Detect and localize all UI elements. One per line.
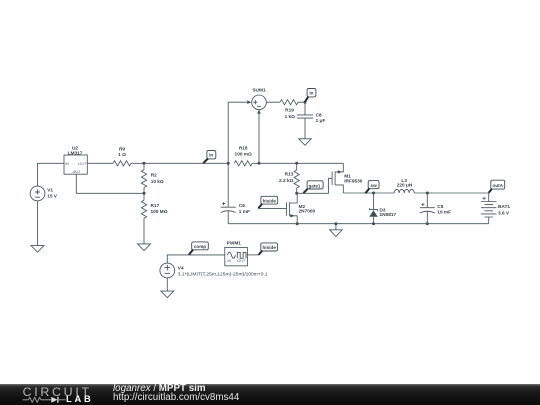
node R19/C8/In flag xyxy=(304,101,307,104)
ground under V1 xyxy=(31,246,44,253)
svg-text:2.2 kΩ: 2.2 kΩ xyxy=(279,178,294,184)
wire PWM1 out xyxy=(247,254,258,256)
PWM1 box xyxy=(225,247,248,265)
battery BAT1 xyxy=(481,197,497,224)
node ground rail/M2 source xyxy=(296,222,299,225)
svg-text:hiside: hiside xyxy=(263,245,277,250)
pin labels U2 xyxy=(65,161,87,174)
svg-text:outA: outA xyxy=(493,183,504,188)
node main/C6/SUM left xyxy=(227,162,230,165)
svg-text:1 mF: 1 mF xyxy=(239,209,250,215)
resistor R16 xyxy=(234,161,252,166)
wire R16 right xyxy=(252,162,259,164)
svg-text:100 mΩ: 100 mΩ xyxy=(235,151,252,157)
svg-text:PWM1: PWM1 xyxy=(227,240,242,246)
ground symbol on rail xyxy=(330,222,343,236)
wire switch rail M1 to L3 xyxy=(343,192,394,194)
flag In (filtered node) xyxy=(305,89,316,102)
node sw/D3 xyxy=(372,192,375,195)
transistor M2 2N7000 xyxy=(258,193,297,223)
svg-text:R16: R16 xyxy=(239,146,248,152)
svg-text:100 MΩ: 100 MΩ xyxy=(151,209,168,215)
capacitor C6 xyxy=(221,163,236,223)
svg-text:gate1: gate1 xyxy=(308,183,320,188)
svg-text:1 Ω: 1 Ω xyxy=(118,152,126,158)
node R13/M2 drain/gate wire xyxy=(295,192,298,195)
svg-text:OUT: OUT xyxy=(237,258,246,263)
svg-text:C8: C8 xyxy=(316,112,322,118)
svg-text:10 mF: 10 mF xyxy=(437,209,451,215)
flag comp xyxy=(189,242,208,255)
svg-text:1 kΩ: 1 kΩ xyxy=(285,114,296,120)
wire V4 to PWM1 xyxy=(167,255,225,263)
svg-text:OUT: OUT xyxy=(78,161,87,166)
resistor R2 xyxy=(141,163,146,193)
CircuitLab logo xyxy=(23,385,92,399)
svg-text:In: In xyxy=(309,91,313,96)
capacitor C8 xyxy=(297,102,313,139)
svg-text:sw: sw xyxy=(371,183,378,188)
resistor R17 xyxy=(141,193,146,244)
flag hiside near M2 xyxy=(258,196,277,208)
svg-text:1 μF: 1 μF xyxy=(316,118,326,124)
regulator U2 LM317 xyxy=(64,155,87,174)
svg-text:BAT1: BAT1 xyxy=(498,204,510,210)
wire V1 top to U2 IN xyxy=(38,163,65,186)
svg-text:15 V: 15 V xyxy=(47,194,58,200)
svg-text:C5: C5 xyxy=(437,204,443,210)
wire V4 bottom to ground xyxy=(166,278,168,291)
capacitor C5 xyxy=(420,193,435,224)
voltage source V4 xyxy=(160,263,175,278)
wire main rail to C6 tap xyxy=(144,162,228,164)
voltage source V1 xyxy=(30,186,45,201)
svg-text:SUM1: SUM1 xyxy=(252,87,266,93)
pin labels PWM1 xyxy=(227,258,246,263)
wire L3 to outA corner xyxy=(414,192,489,194)
svg-text:IRF9530: IRF9530 xyxy=(344,179,363,185)
flag gate1 xyxy=(303,181,323,193)
svg-text:LM317: LM317 xyxy=(68,151,83,157)
ground rail xyxy=(228,223,489,225)
wire R9 to node xyxy=(131,162,144,164)
node R2/ADJ/R17 xyxy=(143,192,146,195)
footer text xyxy=(113,384,206,394)
svg-text:3.6 V: 3.6 V xyxy=(498,211,510,217)
svg-text:V4: V4 xyxy=(178,266,184,272)
node main/R13 xyxy=(295,162,298,165)
node main/SUM bottom xyxy=(258,162,261,165)
node ground rail/D3 xyxy=(372,222,375,225)
svg-text:R17: R17 xyxy=(151,203,160,209)
svg-text:In: In xyxy=(209,152,213,157)
flag outA xyxy=(489,180,505,193)
wire up to SUM1 left input xyxy=(228,102,247,163)
arrowhead into SUM1 left xyxy=(247,100,251,104)
logo wire with resistor and diode xyxy=(0,384,100,405)
flag sw xyxy=(365,181,379,194)
resistor R9 xyxy=(113,161,131,166)
wire V1 bottom to ground xyxy=(37,201,39,246)
svg-text:comp: comp xyxy=(194,244,206,249)
svg-text:hiside: hiside xyxy=(263,199,277,204)
svg-text:2N7000: 2N7000 xyxy=(299,209,316,215)
svg-text:IN: IN xyxy=(227,258,231,263)
wire outA corner down to BAT1 xyxy=(488,193,490,202)
flag In xyxy=(203,151,215,164)
arrowhead into SUM1 bottom xyxy=(257,110,261,114)
svg-text:C6: C6 xyxy=(239,203,245,209)
diode D3 1N5817 schottky xyxy=(369,193,377,224)
svg-text:R2: R2 xyxy=(151,173,157,179)
flag hiside near PWM1 xyxy=(259,243,278,255)
resistor R13 xyxy=(294,163,299,193)
svg-text:220 μH: 220 μH xyxy=(397,182,413,188)
svg-text:R9: R9 xyxy=(119,146,125,152)
svg-text:ADJ: ADJ xyxy=(72,169,80,174)
svg-text:R13: R13 xyxy=(285,172,294,178)
wire main rail to M1 xyxy=(259,162,343,164)
svg-text:10 kΩ: 10 kΩ xyxy=(151,179,164,185)
svg-text:V1: V1 xyxy=(47,188,53,194)
wire SUM1 bottom input xyxy=(258,113,260,163)
node sw rail/C5 xyxy=(426,192,429,195)
node main/R2 xyxy=(143,162,146,165)
svg-text:1N5817: 1N5817 xyxy=(380,212,397,218)
ground under C8 xyxy=(299,139,312,146)
svg-text:R19: R19 xyxy=(285,108,294,114)
resistor R19 xyxy=(266,100,305,105)
svg-text:M1: M1 xyxy=(344,173,351,179)
svg-text:IN: IN xyxy=(65,161,69,166)
wire gate net to M1 gate xyxy=(297,178,332,193)
svg-text:3.1*(LIMIT(T,25m,125m)-25m)/10: 3.1*(LIMIT(T,25m,125m)-25m)/100m+0.1 xyxy=(178,271,268,277)
summing block SUM1 xyxy=(252,95,267,110)
node ground rail/C5 xyxy=(426,222,429,225)
footer bar xyxy=(0,384,540,405)
inductor L3 xyxy=(394,189,414,193)
ground under V4 xyxy=(161,291,174,298)
wire U2 ADJ lead xyxy=(76,174,144,193)
wire U2 OUT to R9 xyxy=(87,162,113,164)
transistor M1 IRF9530 xyxy=(332,163,343,193)
ground under R17 xyxy=(138,244,151,251)
